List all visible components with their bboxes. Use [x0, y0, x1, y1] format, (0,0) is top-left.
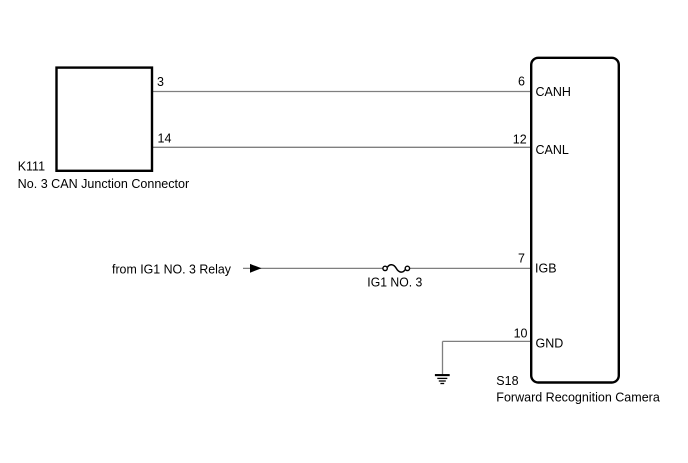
svg-text:No. 3 CAN Junction Connector: No. 3 CAN Junction Connector	[18, 177, 190, 191]
svg-text:10: 10	[514, 326, 528, 340]
svg-text:S18: S18	[496, 374, 518, 388]
svg-text:12: 12	[513, 133, 527, 147]
svg-text:CANL: CANL	[536, 143, 569, 157]
svg-text:from IG1 NO. 3 Relay: from IG1 NO. 3 Relay	[112, 263, 232, 277]
svg-text:Forward Recognition Camera: Forward Recognition Camera	[496, 391, 660, 405]
svg-text:CANH: CANH	[536, 85, 571, 99]
svg-text:GND: GND	[536, 336, 564, 350]
svg-text:K111: K111	[18, 159, 45, 173]
svg-text:7: 7	[518, 251, 525, 265]
svg-text:IG1 NO. 3: IG1 NO. 3	[367, 276, 422, 290]
svg-text:3: 3	[157, 75, 164, 89]
svg-text:IGB: IGB	[535, 261, 557, 275]
svg-text:6: 6	[518, 75, 525, 89]
svg-text:14: 14	[158, 132, 172, 146]
